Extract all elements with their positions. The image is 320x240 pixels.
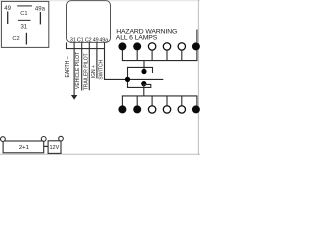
pin C2 terminal tick	[25, 33, 27, 45]
bottom lamp 1 (filled)	[118, 105, 126, 113]
page frame bottom edge	[0, 153, 200, 155]
page background	[0, 0, 200, 155]
wire vehicle pilot	[81, 49, 83, 91]
svg-text:2+1: 2+1	[19, 145, 29, 151]
bottom lamp 2 (filled)	[133, 105, 141, 113]
page frame right edge	[197, 0, 199, 155]
svg-text:C2: C2	[12, 36, 19, 42]
tab comb bottom bar	[66, 48, 105, 50]
2+1 socket box	[3, 141, 44, 153]
tab divider 5	[96, 42, 98, 48]
tab divider 6	[104, 42, 106, 48]
svg-text:12V: 12V	[50, 145, 60, 151]
bottom lamp bus	[122, 95, 198, 97]
svg-text:49a: 49a	[35, 6, 46, 12]
junction dot B1	[125, 77, 130, 82]
top lamp 1 (filled)	[118, 42, 126, 50]
terminal tab comb	[66, 42, 105, 48]
tab divider 2	[73, 42, 75, 48]
top lamp 4 (open)	[163, 43, 170, 50]
svg-text:49: 49	[4, 6, 11, 12]
svg-text:TRAILER PILOT: TRAILER PILOT	[83, 53, 89, 90]
pin 49 terminal tick	[7, 12, 9, 25]
2+1 left terminal circle	[1, 137, 6, 142]
switch frame: left leg	[127, 67, 129, 88]
feed from switch pole to bottom bus	[143, 84, 145, 96]
wire trailer pilot	[88, 49, 90, 91]
top lamp bus	[122, 60, 198, 62]
tab divider 1	[66, 42, 68, 48]
switch pole dot B2	[141, 81, 146, 86]
top lamp 3 (open)	[148, 43, 155, 50]
bottom lamp 6 (filled)	[192, 105, 200, 113]
svg-text:IGN +: IGN +	[91, 65, 97, 78]
wire ign +	[96, 49, 98, 79]
feed from top bus to switch pole	[143, 61, 145, 72]
wire earth	[73, 49, 75, 96]
earth arrowhead	[71, 95, 77, 100]
svg-text:C1: C1	[20, 11, 27, 17]
top lamp 5 (open)	[178, 43, 185, 50]
bottom lamp 3 (open)	[148, 106, 155, 113]
12V supply box	[48, 141, 61, 154]
link wire between boxes	[44, 145, 48, 147]
leader line to lamp row	[196, 30, 198, 43]
page frame top edge	[0, 0, 200, 2]
top lamp 6 (filled)	[192, 42, 200, 50]
svg-text:VEHICLE PILOT: VEHICLE PILOT	[75, 52, 81, 89]
wire switch (vertical + horizontal run to hazard switch)	[105, 49, 164, 80]
bottom lamp 5 (open)	[178, 106, 185, 113]
flasher relay body	[67, 1, 111, 43]
bottom lamp stems	[122, 96, 196, 106]
svg-text:EARTH –: EARTH –	[65, 56, 71, 77]
C1 overline	[17, 5, 32, 7]
bottom lamp 4 (open)	[163, 106, 170, 113]
top lamp stems	[122, 50, 196, 61]
31 overline	[18, 19, 31, 21]
svg-text:31: 31	[20, 24, 27, 30]
tab divider 4	[88, 42, 90, 48]
svg-text:SWITCH: SWITCH	[99, 59, 105, 79]
switch pole dot A	[141, 69, 146, 74]
2+1 right terminal circle	[41, 137, 46, 142]
pin 49a terminal tick	[39, 12, 41, 24]
svg-text:ALL 6 LAMPS: ALL 6 LAMPS	[116, 35, 158, 42]
top lamp 2 (filled)	[133, 42, 141, 50]
12V terminal circle	[59, 136, 64, 141]
lower contact arm + bottom bar	[127, 84, 151, 87]
switch frame: top bar + right contact hook	[128, 67, 153, 73]
tab divider 3	[81, 42, 83, 48]
pinout box (relay base view)	[1, 1, 48, 47]
